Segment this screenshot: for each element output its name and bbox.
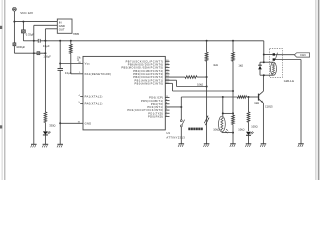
svg-text:VCC 12V: VCC 12V bbox=[20, 11, 34, 15]
svg-text:100µF: 100µF bbox=[43, 54, 51, 58]
svg-text:ATTINY2313: ATTINY2313 bbox=[166, 135, 185, 139]
svg-text:OUT: OUT bbox=[59, 28, 65, 32]
svg-text:PA0(XTAL1): PA0(XTAL1) bbox=[85, 102, 103, 106]
svg-text:10kΩ: 10kΩ bbox=[238, 127, 244, 131]
svg-text:1kΩ: 1kΩ bbox=[238, 63, 243, 67]
svg-text:0.1µF: 0.1µF bbox=[43, 44, 50, 48]
svg-text:PA2(RESET#/dW): PA2(RESET#/dW) bbox=[85, 72, 112, 76]
svg-text:100Ω: 100Ω bbox=[251, 125, 257, 129]
svg-text:7805: 7805 bbox=[73, 32, 80, 36]
svg-text:U1: U1 bbox=[166, 131, 170, 135]
svg-text:PA1(XTAL2): PA1(XTAL2) bbox=[85, 95, 103, 99]
svg-text:1kΩ: 1kΩ bbox=[213, 63, 218, 67]
svg-text:PB0(AIN0/PCINT0): PB0(AIN0/PCINT0) bbox=[135, 81, 164, 85]
svg-text:10kΩ: 10kΩ bbox=[213, 128, 219, 132]
svg-text:10kΩ: 10kΩ bbox=[197, 82, 203, 86]
svg-text:PD0(RXD): PD0(RXD) bbox=[148, 115, 164, 119]
svg-text:G2R-1-E: G2R-1-E bbox=[284, 79, 295, 83]
svg-text:Vcc: Vcc bbox=[85, 62, 91, 66]
svg-text:0.33µF: 0.33µF bbox=[26, 33, 35, 37]
svg-text:1000µF: 1000µF bbox=[16, 45, 25, 49]
svg-text:FAN: FAN bbox=[300, 53, 305, 57]
svg-text:1kΩ: 1kΩ bbox=[254, 101, 259, 105]
svg-text:GND: GND bbox=[85, 121, 92, 125]
svg-text:C1815: C1815 bbox=[265, 105, 273, 109]
svg-text:330Ω: 330Ω bbox=[49, 124, 55, 128]
